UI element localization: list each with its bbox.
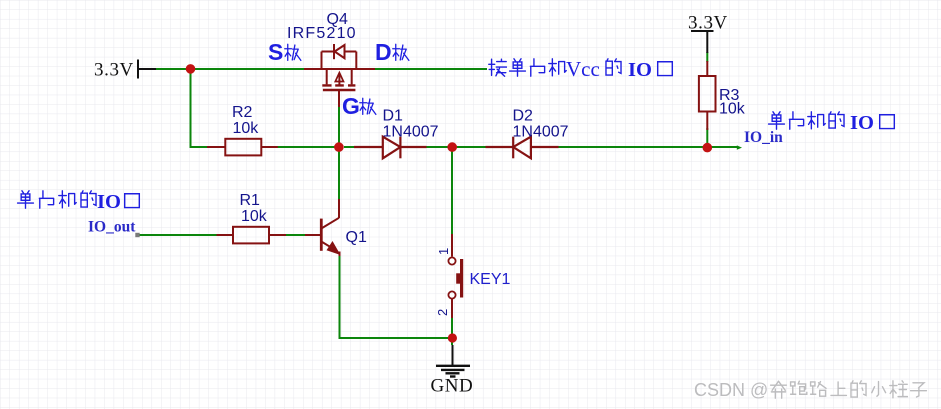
svg-text:3.3V: 3.3V — [94, 60, 134, 81]
Q4 gate pin — [338, 90, 340, 107]
wire: R3 bottom pin to node — [706, 128, 708, 143]
Q4 channel drops — [327, 69, 352, 84]
annotation G pole — [342, 93, 376, 119]
op: MOSFET Q4 IRF5210 — [304, 44, 375, 107]
watermark CSDN — [694, 380, 926, 400]
power port 3.3V left — [138, 60, 156, 79]
wire: gate node down to Q1 collector — [338, 147, 340, 199]
wire: KEY1 pin2 to ground node — [451, 317, 453, 345]
Q4 body-diode cathode bar — [333, 44, 335, 59]
svg-text:D2: D2 — [513, 108, 534, 125]
KEY1 actuator bump — [456, 273, 461, 283]
annotation: MCU IO port (right) — [769, 112, 895, 134]
wire: MOSFET gate down to gate node — [338, 106, 340, 147]
svg-text:2: 2 — [435, 309, 450, 316]
node: R3 junction — [703, 143, 713, 153]
Q4 gate bar — [323, 89, 356, 91]
switch KEY1 — [448, 234, 461, 318]
node: 3.3V rail junction — [186, 64, 196, 74]
node: ground junction — [448, 333, 457, 342]
power port 3.3V right — [691, 31, 714, 53]
svg-text:IO: IO — [97, 191, 121, 213]
wire: mid node down to KEY1 pin1 — [451, 147, 453, 235]
svg-text:10k: 10k — [241, 208, 268, 225]
svg-text:IO_in: IO_in — [744, 129, 783, 146]
svg-text:R2: R2 — [232, 104, 253, 121]
svg-text:Vcc: Vcc — [566, 57, 600, 81]
node: gate junction — [334, 142, 344, 152]
wire: R2 right to gate node — [278, 146, 340, 148]
Q4 substrate line — [338, 74, 340, 86]
wire: MOSFET drain to Vcc label — [375, 68, 487, 70]
svg-text:D: D — [375, 39, 392, 65]
wire end arrow at IO_in — [737, 145, 742, 149]
annotation D pole — [375, 39, 409, 65]
svg-text:KEY1: KEY1 — [470, 271, 511, 288]
svg-text:1N4007: 1N4007 — [513, 124, 569, 141]
svg-text:Q1: Q1 — [346, 229, 367, 246]
svg-text:CSDN @: CSDN @ — [694, 380, 768, 400]
Q4 left riser — [321, 52, 323, 69]
wire start dot IO_out — [135, 233, 139, 237]
svg-text:1N4007: 1N4007 — [383, 124, 439, 141]
Q4 right riser — [355, 52, 357, 69]
svg-text:G: G — [342, 93, 360, 119]
Q4 body-diode triangle — [335, 45, 345, 58]
svg-text:D1: D1 — [383, 108, 404, 125]
svg-text:IO: IO — [850, 112, 874, 134]
resistor R3 — [699, 61, 716, 130]
svg-text:3.3V: 3.3V — [688, 13, 728, 34]
svg-text:R1: R1 — [240, 192, 261, 209]
node: D1-D2 junction — [447, 142, 457, 152]
svg-text:S: S — [268, 39, 283, 65]
Q4 source/drain pins and channel bar — [304, 68, 375, 70]
svg-text:10k: 10k — [233, 120, 260, 137]
ground — [436, 345, 470, 377]
svg-text:IRF5210: IRF5210 — [287, 25, 357, 42]
wire: Q1 emitter down and right to ground node — [340, 255, 453, 338]
Q1 emitter arrow — [327, 241, 341, 255]
annotation S pole — [268, 39, 301, 65]
wire: R3 top to power port — [706, 52, 708, 62]
Q4 body-diode rail left — [322, 51, 335, 53]
wire: node A down to R2 row — [191, 69, 226, 147]
resistor R1 — [217, 227, 287, 244]
diode D1 — [354, 137, 427, 159]
diode D2 — [486, 137, 559, 159]
transistor Q1 — [305, 199, 340, 256]
annotation: MCU IO port (left) — [18, 191, 140, 213]
svg-text:10k: 10k — [719, 101, 746, 118]
resistor R2 — [207, 139, 278, 156]
Q4 body-diode rail right — [345, 51, 357, 53]
wire: IO_out to R1 and to Q1 base — [138, 234, 305, 236]
Q4 substrate arrow head — [335, 73, 343, 82]
wire: 3.3V left to MOSFET source — [155, 68, 304, 70]
svg-text:IO: IO — [628, 59, 652, 81]
wire: gate node to D1, D1 to mid node, mid node to D2, D2 to R3 node — [344, 146, 737, 148]
svg-text:1: 1 — [436, 248, 451, 255]
Q4 channel segments — [322, 84, 355, 86]
svg-text:IO_out: IO_out — [88, 219, 136, 236]
annotation: connect MCU Vcc IO port — [489, 57, 673, 81]
svg-text:GND: GND — [431, 376, 474, 397]
